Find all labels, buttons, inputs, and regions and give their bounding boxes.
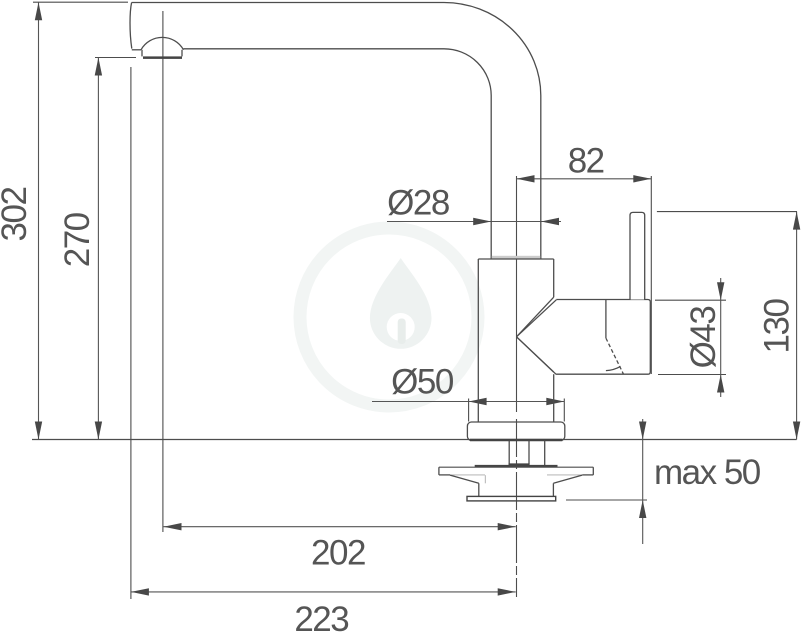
svg-text:202: 202	[311, 534, 365, 573]
svg-text:Ø43: Ø43	[684, 307, 723, 369]
svg-text:Ø50: Ø50	[391, 363, 454, 402]
svg-text:270: 270	[58, 212, 97, 267]
svg-text:302: 302	[0, 188, 34, 242]
svg-text:Ø28: Ø28	[387, 184, 449, 223]
svg-text:82: 82	[568, 141, 604, 180]
svg-text:max 50: max 50	[654, 453, 761, 492]
svg-text:223: 223	[294, 600, 348, 639]
svg-text:130: 130	[758, 299, 797, 354]
